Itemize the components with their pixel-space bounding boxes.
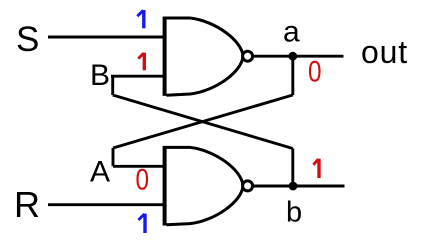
NAND gate U2 input bar <box>163 146 167 226</box>
value 1 (blue) on S input <box>137 10 144 28</box>
svg-text:R: R <box>14 184 40 225</box>
value 1 (red) on B input <box>138 53 144 71</box>
svg-text:0: 0 <box>136 163 150 196</box>
wire U1 output to out <box>253 55 344 58</box>
wire node a drop vertical <box>291 56 294 95</box>
svg-text:B: B <box>90 59 110 92</box>
value 1 (red) at node b <box>313 159 319 178</box>
wire B drop vertical <box>111 76 114 95</box>
wire A input <box>113 165 165 168</box>
NAND gate U1 output bubble <box>243 51 253 61</box>
wire A drop vertical <box>112 148 115 166</box>
wire diagonal node a to A <box>113 95 293 148</box>
svg-text:b: b <box>286 197 302 229</box>
wire diagonal B to node b <box>113 95 293 149</box>
NAND gate U2 output bubble <box>243 181 253 191</box>
node b junction dot <box>289 182 298 191</box>
wire S input <box>48 36 165 39</box>
NAND gate U2 body <box>167 147 244 224</box>
wire B input <box>111 75 165 78</box>
node a junction dot <box>288 52 297 61</box>
NAND gate U1 input bar <box>163 17 167 96</box>
svg-text:out: out <box>361 34 408 70</box>
svg-text:0: 0 <box>308 56 322 89</box>
svg-text:A: A <box>90 156 110 189</box>
wire node b vertical feedback <box>291 149 294 187</box>
svg-text:a: a <box>283 16 300 49</box>
wire R input <box>48 203 165 206</box>
NAND gate U1 body <box>167 18 244 95</box>
value 1 (blue) on R input <box>138 214 145 233</box>
svg-text:S: S <box>16 20 39 59</box>
wire U2 output <box>253 185 345 188</box>
